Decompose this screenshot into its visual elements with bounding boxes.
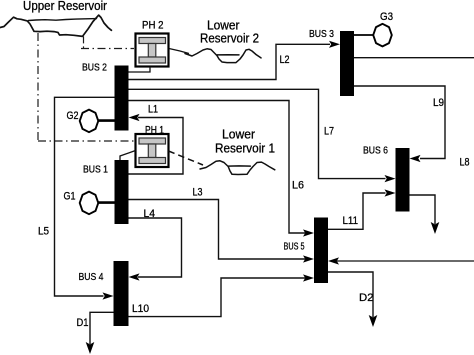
line L8 [354, 57, 474, 59]
generator G1 [80, 192, 99, 215]
line L5 [55, 97, 115, 299]
svg-text:BUS 4: BUS 4 [79, 271, 104, 283]
load D2 [328, 272, 377, 327]
load D1 [86, 312, 114, 354]
svg-text:Upper Reservoir: Upper Reservoir [23, 0, 107, 13]
bus BUS1 [115, 160, 129, 224]
svg-text:L4: L4 [144, 208, 156, 220]
bus BUS4 [114, 261, 129, 326]
svg-text:BUS 6: BUS 6 [363, 145, 388, 157]
svg-text:D1: D1 [77, 317, 89, 329]
svg-text:BUS 3: BUS 3 [309, 28, 334, 40]
svg-text:G1: G1 [64, 191, 76, 203]
svg-text:L10: L10 [132, 303, 149, 315]
svg-text:L5: L5 [38, 226, 49, 238]
wire PH2 to lower reservoir 2 [169, 49, 189, 54]
line L3 [129, 200, 315, 263]
pumped-hydro unit PH1 [136, 134, 169, 167]
load at BUS6 [410, 195, 440, 234]
wire G1 to BUS1 [98, 201, 114, 204]
line L10 [129, 274, 315, 316]
svg-text:L8: L8 [460, 157, 470, 169]
line L11 [328, 189, 396, 229]
lower reservoir 2 sketch [185, 49, 261, 63]
wire G3 to BUS3 [354, 34, 373, 36]
svg-text:L9: L9 [433, 97, 444, 109]
line L9 [354, 86, 445, 162]
dash-dot penstock upper reservoir to PH 2 [81, 36, 134, 48]
dash-dot penstock upper reservoir to PH 1 [38, 33, 134, 141]
bus BUS6 [396, 148, 410, 212]
upper reservoir sketch [0, 15, 111, 36]
bus BUS5 [314, 218, 328, 284]
generator G3 [373, 24, 392, 47]
svg-text:L6: L6 [292, 180, 304, 192]
svg-text:G3: G3 [380, 11, 393, 23]
svg-text:L1: L1 [148, 104, 158, 116]
generator G2 [80, 110, 99, 133]
svg-text:Reservoir 1: Reservoir 1 [215, 142, 275, 156]
svg-text:G2: G2 [67, 110, 79, 122]
svg-text:PH 2: PH 2 [142, 20, 164, 32]
dashed wire PH1 to lower reservoir 1 [169, 151, 204, 165]
svg-text:BUS 1: BUS 1 [83, 164, 108, 176]
svg-text:Lower: Lower [207, 19, 240, 33]
wire G2 to BUS2 [98, 119, 114, 122]
pumped-hydro unit PH2 [136, 34, 169, 67]
line L2 [129, 41, 341, 80]
wire PH1 to BUS1 [120, 151, 136, 161]
line L6 [129, 101, 315, 237]
svg-text:L7: L7 [324, 126, 334, 138]
bus BUS2 [115, 66, 129, 131]
svg-text:L11: L11 [343, 215, 359, 227]
svg-text:Lower: Lower [222, 128, 255, 142]
plant boundary box around PH1 / line L1 [129, 114, 184, 174]
lower reservoir 1 sketch [200, 161, 275, 175]
svg-text:BUS 5: BUS 5 [284, 241, 305, 253]
line L4 [129, 218, 182, 281]
svg-text:L2: L2 [280, 54, 290, 66]
svg-text:D2: D2 [359, 292, 374, 304]
svg-text:BUS 2: BUS 2 [82, 62, 107, 74]
tie line from right edge into BUS5 [328, 257, 474, 264]
wire PH2 to BUS2 [129, 67, 151, 72]
svg-text:Reservoir 2: Reservoir 2 [200, 32, 259, 46]
svg-text:L3: L3 [193, 187, 203, 199]
line L7 [129, 89, 396, 182]
bus BUS3 [340, 31, 354, 96]
